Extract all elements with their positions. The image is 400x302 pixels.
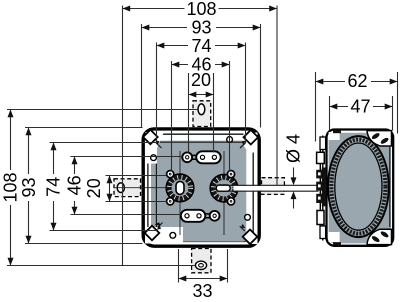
knockout left (dashed) bbox=[114, 179, 141, 197]
knockout bottom pilot bbox=[195, 261, 206, 269]
dim 20 left bbox=[84, 176, 113, 202]
knockout right (dashed) bbox=[262, 178, 285, 195]
svg-text:47: 47 bbox=[350, 97, 370, 117]
extension line 74 top-right bbox=[245, 43, 247, 144]
top-left tab marks bbox=[333, 130, 341, 133]
corner screw diamond BL bbox=[145, 222, 163, 240]
centerline left knockout bbox=[114, 187, 167, 189]
extension line 93 top-right bbox=[260, 24, 262, 128]
centerline right gland bbox=[223, 151, 225, 235]
extension line 93 left-bottom bbox=[25, 243, 143, 245]
gland bolt lower-left bbox=[167, 198, 174, 205]
dim 93 left bbox=[19, 128, 39, 244]
extension line 20 left-bottom bbox=[106, 201, 167, 203]
svg-text:93: 93 bbox=[191, 18, 211, 38]
plate edge lines bbox=[156, 142, 245, 230]
side wall ellipse inner bbox=[335, 143, 382, 230]
lid edge bbox=[148, 134, 253, 241]
svg-text:108: 108 bbox=[0, 172, 20, 202]
lower latch tab bbox=[317, 211, 324, 225]
extension line 93 top-left bbox=[141, 24, 143, 128]
dim dia 4 bbox=[284, 134, 304, 209]
gland bolt upper-left bbox=[167, 171, 174, 178]
extension line 20 top-right bbox=[213, 73, 215, 153]
knockout top (dashed) bbox=[193, 101, 211, 127]
extension line 74 left-bottom bbox=[50, 230, 158, 232]
enclosure outer body bbox=[143, 129, 259, 246]
mounting plate (grey) bbox=[151, 141, 246, 242]
lid screw hole top-right bbox=[227, 137, 233, 143]
extension line 108 left-top bbox=[7, 109, 198, 111]
extension line 46 left-bottom bbox=[71, 214, 182, 216]
lid slab edge-on bbox=[320, 136, 323, 241]
svg-text:62: 62 bbox=[347, 71, 367, 91]
dim 20 top bbox=[189, 70, 214, 97]
corner screw diamond BR bbox=[240, 224, 257, 244]
extension line 108 top-left bbox=[122, 6, 124, 266]
side interior grey bbox=[329, 133, 391, 244]
lid screw hole bottom-left bbox=[170, 232, 176, 238]
extension line 93 left-top bbox=[25, 127, 143, 129]
svg-text:Ø 4: Ø 4 bbox=[284, 134, 304, 163]
corner recess bottom-right bbox=[243, 231, 258, 244]
dim 108 left bbox=[0, 110, 20, 266]
corner recess bottom-left bbox=[145, 227, 183, 244]
extension line 74 left-top bbox=[50, 142, 157, 144]
drill line pair to side view bbox=[234, 186, 319, 191]
mounting foot bottom-right bbox=[367, 229, 392, 244]
corner recess top-left bbox=[146, 132, 165, 164]
extension line 20 left-top bbox=[106, 175, 167, 177]
extension line 108 top-right bbox=[276, 6, 278, 186]
svg-text:20: 20 bbox=[84, 178, 104, 198]
extension line 46 left-top bbox=[71, 156, 183, 158]
dim 46 left bbox=[64, 157, 84, 215]
extension line 46 top-right bbox=[229, 61, 231, 172]
gland left bbox=[166, 174, 193, 201]
dim 47 side bbox=[330, 96, 393, 131]
lid screw hole left bbox=[151, 155, 157, 161]
side body bbox=[327, 130, 394, 246]
dim 33 bottom bbox=[179, 249, 228, 301]
svg-text:33: 33 bbox=[192, 281, 212, 301]
dim 108 top bbox=[122, 0, 277, 19]
knockout left pilot bbox=[117, 183, 124, 193]
knockout bottom (dashed) bbox=[192, 249, 211, 273]
side wall ellipse outer bbox=[328, 136, 389, 237]
extension line 108 left-bottom bbox=[7, 265, 195, 267]
gland bolt lower-right bbox=[227, 198, 234, 205]
svg-text:108: 108 bbox=[186, 0, 216, 19]
corner recess top-right bbox=[244, 133, 258, 153]
mounting foot top-right bbox=[367, 131, 392, 146]
top knockout cluster bbox=[182, 151, 220, 163]
extension line 46 top-left bbox=[171, 61, 173, 172]
corner screw diamond TR bbox=[240, 130, 258, 148]
dim 62 side bbox=[316, 71, 398, 141]
extension line 74 top-left bbox=[156, 43, 158, 144]
extension line 20 top-left bbox=[188, 73, 190, 153]
lid screw hole right bbox=[245, 214, 251, 220]
dim 46 top bbox=[172, 55, 230, 75]
lower hinge step bbox=[320, 226, 326, 239]
centerline left gland bbox=[179, 151, 181, 235]
white corners bbox=[329, 132, 340, 140]
bottom knockout cluster bbox=[181, 210, 220, 222]
corner screw diamond TL bbox=[143, 130, 161, 148]
side wall ring texture bbox=[331, 140, 385, 234]
gland bolt upper-right bbox=[227, 171, 234, 178]
svg-text:93: 93 bbox=[19, 177, 39, 197]
upper hinge step bbox=[320, 137, 326, 150]
svg-text:46: 46 bbox=[64, 175, 84, 195]
dim 74 left bbox=[43, 143, 63, 231]
dim 74 top bbox=[157, 36, 246, 56]
latch teeth stack bbox=[316, 168, 326, 207]
knockout top pilot bbox=[198, 104, 205, 115]
dim 93 top bbox=[142, 18, 261, 38]
svg-text:74: 74 bbox=[43, 177, 63, 197]
upper latch tab bbox=[317, 152, 325, 163]
gland right bbox=[210, 175, 237, 202]
svg-text:20: 20 bbox=[191, 70, 211, 90]
svg-text:74: 74 bbox=[191, 36, 211, 56]
